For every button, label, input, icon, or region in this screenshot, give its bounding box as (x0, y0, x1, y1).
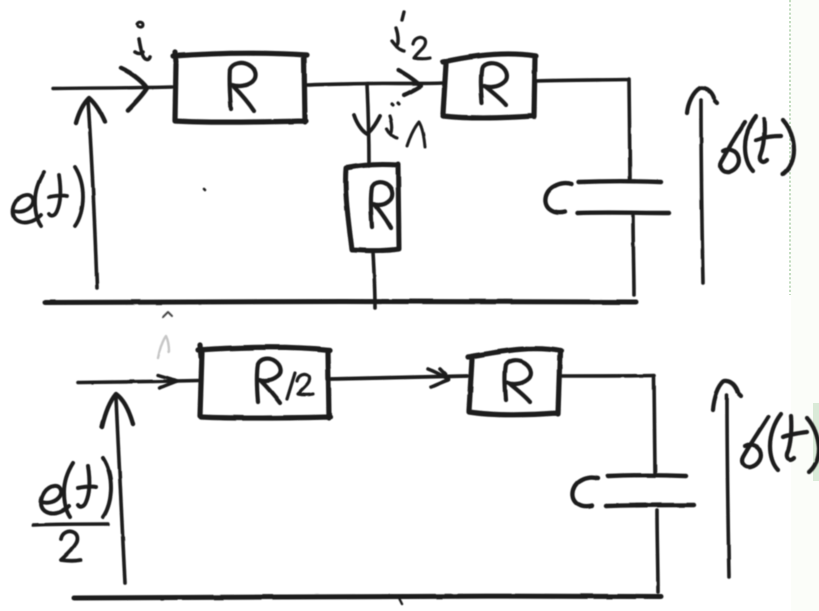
label C (bottom cap) (572, 477, 598, 507)
green margin line (790, 0, 819, 611)
stray dot (204, 189, 205, 190)
resistor R4 box (tilted) (468, 349, 561, 415)
letter R (R4) (505, 360, 531, 402)
middle resistor R3 wire overshoot below rail (373, 252, 375, 308)
wire R1 to junction (306, 84, 368, 86)
wire R4 to corner and down to cap2 (561, 376, 655, 474)
fraction bar (33, 524, 108, 525)
ground rail bottom circuit (74, 596, 661, 598)
arrow i1 down chevron (354, 115, 380, 134)
small tick below rail (163, 312, 172, 317)
wire cap C1 to ground rail (633, 216, 634, 295)
wire cap C2 to ground rail (657, 510, 658, 592)
label e(t) (13, 167, 83, 226)
label s(t) bottom (742, 414, 819, 472)
faint pencil mark above input wire (158, 336, 169, 358)
wire input bottom (78, 381, 200, 383)
resistor R/2 box (198, 345, 330, 418)
label i (135, 22, 150, 59)
arrow s(t) bottom (713, 381, 741, 577)
resistor R2 box (tilted) (443, 54, 536, 118)
letter R/2 (257, 359, 313, 403)
small tick on bottom rail (399, 598, 402, 604)
label i2 (392, 12, 430, 59)
resistor R1 box (173, 52, 307, 122)
arrow s(t) top (687, 88, 717, 283)
arrowhead input bottom (158, 375, 177, 388)
label e(t)/2 with fraction bar (33, 458, 111, 561)
ground rail top circuit (45, 301, 636, 302)
resistor R3 box vertical (346, 164, 399, 251)
letter R (R1) (230, 63, 256, 111)
junction vertical wire down (367, 84, 369, 166)
digit 2 (61, 531, 81, 560)
arrow i2 on wire (398, 70, 421, 95)
label s(t) top (720, 116, 794, 174)
capacitor C2 top plate (608, 473, 686, 478)
capacitor C1 bottom plate (577, 210, 669, 215)
capacitor C2 bottom plate (606, 505, 694, 506)
arrowhead mid bottom (428, 369, 448, 387)
arrow chevron on input wire (121, 68, 147, 110)
wire R/2 to R with arrow (331, 376, 467, 379)
capacitor C1 top plate (579, 179, 661, 184)
arrow e(t) (76, 98, 105, 288)
arrow e(t)/2 (102, 394, 133, 583)
label C (top cap) (545, 183, 572, 213)
label i1 (387, 103, 425, 147)
wire R2 to corner and down to cap (536, 79, 630, 179)
wire junction to R2 (368, 81, 443, 85)
wire input top (53, 87, 172, 89)
letter R (R3) (371, 182, 392, 228)
letter R (R2) (481, 63, 507, 105)
